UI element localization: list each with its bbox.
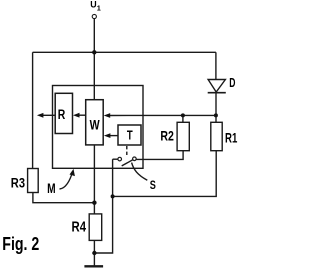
svg-text:U: U — [90, 0, 96, 10]
svg-text:R2: R2 — [160, 128, 174, 143]
svg-text:S: S — [150, 178, 156, 192]
svg-text:R4: R4 — [72, 219, 87, 235]
svg-text:R: R — [58, 107, 65, 123]
svg-text:W: W — [90, 118, 100, 133]
svg-text:1: 1 — [97, 3, 101, 12]
svg-text:M: M — [47, 181, 56, 196]
svg-text:T: T — [127, 127, 133, 142]
svg-text:Fig. 2: Fig. 2 — [2, 234, 39, 254]
svg-text:D: D — [229, 75, 235, 90]
svg-text:R3: R3 — [11, 174, 25, 190]
svg-text:R1: R1 — [225, 131, 238, 146]
